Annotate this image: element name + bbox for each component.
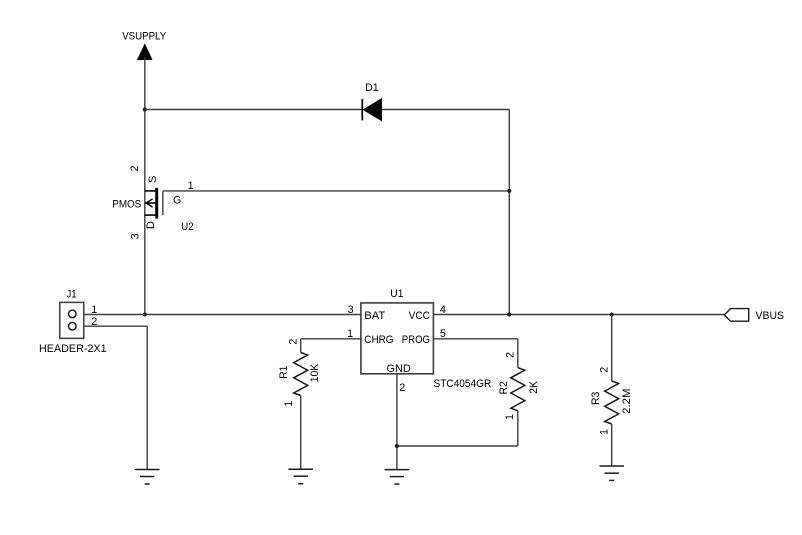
svg-text:2: 2	[288, 339, 300, 345]
svg-text:U1: U1	[390, 288, 403, 300]
svg-text:2K: 2K	[528, 381, 540, 394]
wire gate of U2 to right vertical	[163, 190, 510, 192]
svg-text:G: G	[173, 194, 181, 206]
power symbol VSUPPLY arrow	[138, 45, 152, 60]
wire right vertical D1 to VCC	[508, 110, 510, 315]
svg-text:2: 2	[399, 382, 405, 394]
svg-text:1: 1	[283, 401, 295, 407]
svg-text:10K: 10K	[309, 363, 321, 382]
svg-text:2.2M: 2.2M	[621, 389, 633, 414]
connector J1	[60, 302, 84, 338]
ground below U1 GND	[385, 470, 410, 485]
svg-text:R2: R2	[498, 381, 510, 394]
resistor R2	[511, 368, 525, 411]
svg-text:R3: R3	[590, 392, 602, 405]
transistor U2 PMOS	[145, 188, 163, 219]
svg-text:CHRG: CHRG	[364, 334, 393, 346]
resistor R3	[605, 381, 619, 424]
wire U1 PROG horizontal	[433, 338, 517, 340]
wire R3 bottom vertical	[611, 424, 613, 466]
junction bus / VSUPPLY vertical	[143, 313, 147, 317]
svg-text:BAT: BAT	[364, 310, 385, 322]
junction gate wire / right vertical	[507, 189, 511, 193]
svg-text:J1: J1	[67, 289, 77, 301]
svg-text:1: 1	[504, 414, 516, 420]
wire J1 pin2 horizontal	[84, 325, 147, 327]
svg-text:PMOS: PMOS	[112, 198, 141, 210]
svg-text:R1: R1	[278, 366, 290, 379]
wire R1 to ground	[300, 396, 302, 470]
junction VSUPPLY / top wire	[143, 108, 147, 112]
svg-text:3: 3	[348, 304, 354, 316]
svg-text:D1: D1	[365, 82, 379, 94]
svg-text:D: D	[145, 221, 157, 229]
svg-text:GND: GND	[387, 363, 411, 375]
wire top horizontal left of D1	[145, 109, 362, 111]
diode D1	[362, 99, 381, 121]
wire R3 top vertical	[611, 315, 613, 382]
wire J1 pin2 vertical to ground	[146, 326, 148, 469]
wire U1 CHRG horizontal	[301, 338, 361, 340]
svg-text:U2: U2	[181, 221, 193, 233]
IC U1 box	[361, 303, 434, 374]
ground below R3	[599, 466, 624, 480]
ground below J1 pin2	[135, 470, 160, 485]
wire J1 pin1 to U1 BAT	[84, 314, 361, 316]
junction R3 / bus	[610, 313, 614, 317]
svg-text:2: 2	[599, 367, 611, 373]
svg-text:1: 1	[188, 180, 194, 192]
junction VCC wire / right vertical	[507, 313, 511, 317]
svg-text:PROG: PROG	[402, 334, 430, 346]
svg-text:3: 3	[129, 233, 141, 239]
svg-text:HEADER-2X1: HEADER-2X1	[39, 343, 107, 355]
svg-text:VBUS: VBUS	[756, 310, 785, 322]
svg-text:VCC: VCC	[409, 310, 430, 322]
wire R2 bottom vertical	[517, 411, 519, 446]
svg-text:2: 2	[504, 352, 516, 358]
svg-text:VSUPPLY: VSUPPLY	[122, 31, 166, 43]
wire U1 GND vertical	[396, 374, 398, 470]
svg-text:S: S	[147, 176, 159, 183]
wire CHRG corner vertical to R1	[300, 339, 302, 353]
junction GND wire / R2 bottom	[395, 444, 399, 448]
wire R2 bottom horizontal to GND net	[397, 445, 518, 447]
wire VSUPPLY vertical	[144, 57, 146, 315]
port VBUS flag	[724, 309, 748, 322]
ground below R1	[288, 469, 313, 484]
svg-text:2: 2	[129, 165, 141, 171]
svg-text:STC4054GR: STC4054GR	[434, 378, 492, 390]
wire U1 VCC to VBUS	[433, 314, 724, 316]
svg-text:1: 1	[599, 429, 611, 435]
wire PROG corner vertical to R2	[517, 339, 519, 368]
resistor R1	[294, 353, 308, 396]
wire top horizontal right of D1	[382, 109, 510, 111]
